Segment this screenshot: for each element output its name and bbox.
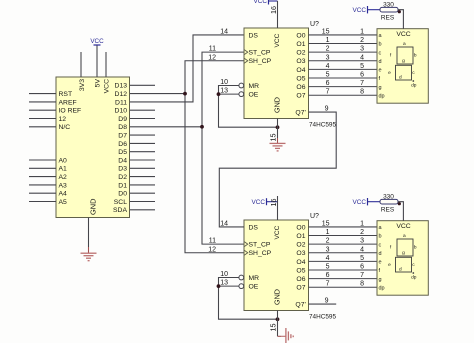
pin label Q7 U7-2 — [295, 302, 306, 309]
pin label O5 U7-1 — [296, 75, 305, 82]
svg-text:D13: D13 — [115, 83, 128, 90]
pin label A4 — [59, 191, 68, 198]
wire left-chip pin D9 stub — [130, 118, 155, 120]
pin label O4 U7-2 — [296, 259, 305, 266]
pin number 2 (O2 U7-2) — [326, 238, 330, 245]
svg-text:4: 4 — [360, 246, 364, 253]
svg-text:O7: O7 — [296, 93, 305, 100]
wire O0 U7-2 to display segment a — [309, 226, 378, 228]
junction resistor R1 output — [398, 10, 401, 13]
svg-text:VCC: VCC — [252, 199, 266, 206]
svg-text:12: 12 — [208, 246, 216, 253]
wire O2 U7-1 to display segment c — [309, 51, 378, 53]
svg-text:6: 6 — [360, 72, 364, 79]
svg-text:VCC: VCC — [396, 31, 410, 38]
svg-text:RST: RST — [59, 91, 73, 98]
pin label D13 — [115, 83, 128, 90]
wire O3 U7-1 to display segment d — [309, 60, 378, 62]
pin number 12 SH_CP U7-2 — [208, 246, 216, 253]
wire O6 U7-1 to display segment g — [309, 86, 378, 88]
svg-text:dp: dp — [411, 83, 417, 89]
svg-text:a: a — [403, 234, 406, 239]
wire left-chip pin RST stub — [29, 93, 56, 95]
svg-text:SH_CP: SH_CP — [249, 250, 272, 257]
pin label b display DS2 — [379, 234, 382, 240]
7-segment display DS2 body — [377, 221, 428, 296]
pin label GND rotated U7-1 — [272, 97, 281, 113]
pin number 14 (U7-1 DS) — [220, 28, 228, 35]
wire left-chip pin A0 stub — [29, 159, 56, 161]
svg-text:7: 7 — [326, 89, 330, 96]
svg-text:GND: GND — [272, 289, 281, 305]
junction OE U7-2 — [217, 284, 221, 288]
wire O7 U7-2 to display segment dp — [309, 286, 378, 288]
pin number 5 (O5 U7-2) — [326, 264, 330, 271]
pin label D3 — [118, 166, 127, 173]
svg-text:O4: O4 — [296, 67, 305, 74]
pin label f display DS1 — [379, 76, 381, 82]
wire GND pin U7-1 down — [277, 119, 279, 144]
microcontroller U_left body — [56, 77, 130, 218]
svg-text:d: d — [399, 267, 402, 273]
wire left-chip pin AREF stub — [29, 101, 56, 103]
svg-text:g: g — [402, 251, 405, 256]
svg-text:74HC595: 74HC595 — [309, 122, 336, 129]
svg-text:VCC: VCC — [274, 225, 281, 239]
svg-text:D0: D0 — [118, 191, 127, 198]
ground symbol below U7-1 — [270, 143, 286, 151]
pin number 16 rotated U7-1 — [269, 6, 278, 14]
wire left chip GND pin down — [88, 218, 90, 248]
pin number 1 (display 1 segment a) — [360, 28, 364, 35]
pin label SH_CP with clock arrow U7-1 — [244, 58, 272, 65]
svg-text:3: 3 — [360, 46, 364, 53]
svg-text:VCC: VCC — [274, 33, 281, 47]
wire net D12 to SH_CP verticals — [130, 93, 185, 95]
pin label A0 — [59, 157, 68, 164]
ground symbol below left chip — [81, 247, 97, 261]
pin label O7 U7-1 — [296, 93, 305, 100]
svg-text:VCC: VCC — [353, 7, 367, 14]
pin label a display DS1 — [379, 33, 383, 39]
pin label D12 — [115, 91, 128, 98]
pin label VCC rotated U7-1 — [274, 33, 281, 47]
pin label O2 U7-1 — [296, 50, 305, 57]
pin number 7 (display 1 segment g) — [360, 80, 364, 87]
wire Q7 U7-1 cascade to DS U7-2 pin 14 — [219, 112, 336, 227]
svg-text:ST_CP: ST_CP — [249, 50, 271, 57]
pin number 2 (display 1 segment b) — [360, 37, 364, 44]
wire left-chip pin D4 stub — [130, 159, 155, 161]
pin label 12 — [59, 116, 67, 123]
wire left-chip pin D2 stub — [130, 176, 155, 178]
svg-text:14: 14 — [220, 28, 228, 35]
svg-text:5: 5 — [360, 63, 364, 70]
pin number 11 ST_CP U7-2 — [209, 238, 216, 245]
svg-text:b: b — [379, 42, 382, 48]
svg-text:8: 8 — [360, 89, 364, 96]
wire left-chip pin 12 stub — [29, 118, 56, 120]
wire net D8 to ST_CP bus — [130, 126, 202, 128]
wire left-chip pin D1 stub — [130, 184, 155, 186]
svg-text:VCC: VCC — [104, 79, 111, 93]
pin label VCC (rotated) — [104, 79, 111, 93]
pin label O5 U7-2 — [296, 267, 305, 274]
svg-text:IO REF: IO REF — [59, 108, 82, 115]
svg-text:O3: O3 — [296, 250, 305, 257]
svg-text:MR: MR — [249, 275, 260, 282]
wire O4 U7-2 to display segment e — [309, 260, 378, 262]
pin label SCL — [114, 199, 127, 206]
svg-text:A4: A4 — [59, 191, 68, 198]
wire 3V3 pin stub (top) — [80, 52, 82, 77]
pin label D2 — [118, 174, 127, 181]
power symbol VCC for U7-2 — [252, 198, 278, 206]
pin label OE with bubble U7-2 — [239, 284, 259, 291]
wire O0 U7-1 to display segment a — [309, 34, 378, 36]
pin number 15 rotated at U7-1 GND — [269, 134, 278, 142]
pin number 10 MR U7-1 — [220, 79, 228, 86]
wire O4 U7-1 to display segment e — [309, 68, 378, 70]
wire O1 U7-1 to display segment b — [309, 43, 378, 45]
svg-text:5: 5 — [326, 72, 330, 79]
svg-text:A3: A3 — [59, 182, 68, 189]
pin label d display DS2 — [379, 251, 382, 257]
svg-text:3: 3 — [326, 54, 330, 61]
7-segment digit glyph display DS2 — [388, 234, 417, 280]
pin label ST_CP with clock arrow U7-2 — [244, 242, 271, 249]
svg-text:2: 2 — [360, 229, 364, 236]
pin label g display DS1 — [379, 85, 382, 91]
ground symbol right-rotated below U7-2 — [281, 328, 293, 343]
wire VCC to U7-2 top pin 16 — [277, 196, 279, 220]
svg-text:DS: DS — [249, 32, 259, 39]
pin label MR with bubble U7-2 — [239, 275, 259, 282]
svg-text:Q7’: Q7’ — [295, 302, 306, 309]
pin label f display DS2 — [379, 268, 381, 274]
svg-text:A1: A1 — [59, 166, 68, 173]
pin number 4 (O4 U7-2) — [326, 255, 330, 262]
pin label D8 — [118, 124, 127, 131]
svg-text:D12: D12 — [115, 91, 128, 98]
pin label RST — [59, 91, 73, 98]
wire resistor R2 to display VCC — [398, 202, 403, 221]
svg-text:dp: dp — [379, 285, 385, 291]
svg-text:D9: D9 — [118, 116, 127, 123]
svg-text:15: 15 — [322, 220, 330, 227]
wire O5 U7-2 to display segment f — [309, 269, 378, 271]
svg-text:g: g — [379, 277, 382, 283]
svg-text:e: e — [388, 263, 391, 268]
7-segment display DS1 body — [377, 29, 428, 104]
pin label SH_CP with clock arrow U7-2 — [244, 250, 272, 257]
pin number 11 ST_CP U7-1 — [209, 46, 216, 53]
svg-text:10: 10 — [220, 79, 228, 86]
svg-text:d: d — [379, 59, 382, 65]
label U? designator U7-2 — [310, 213, 319, 220]
svg-text:6: 6 — [360, 264, 364, 271]
pin label D11 — [115, 99, 127, 106]
svg-text:7: 7 — [360, 80, 364, 87]
pin number 6 (display 1 segment f) — [360, 72, 364, 79]
svg-text:330: 330 — [383, 193, 394, 200]
svg-text:O1: O1 — [296, 233, 305, 240]
svg-text:VCC: VCC — [396, 223, 410, 230]
pin label O6 U7-1 — [296, 84, 305, 91]
label U? designator U7-1 — [310, 21, 319, 28]
pin number 6 (display 2 segment f) — [360, 264, 364, 271]
pin label a display DS2 — [379, 225, 383, 231]
svg-text:O6: O6 — [296, 84, 305, 91]
wire 5V pin to VCC symbol — [96, 45, 98, 77]
pin number 4 (display 1 segment d) — [360, 54, 364, 61]
svg-text:13: 13 — [220, 88, 228, 95]
svg-text:O1: O1 — [296, 41, 305, 48]
pin number 7 (display 2 segment g) — [360, 272, 364, 279]
junction GND wire U7-1 — [276, 125, 280, 129]
svg-text:SCL: SCL — [114, 199, 127, 206]
pin number 4 (display 2 segment d) — [360, 246, 364, 253]
svg-text:dp: dp — [379, 93, 385, 99]
value label 330 (R2) — [383, 193, 394, 200]
svg-text:VCC: VCC — [254, 0, 268, 5]
svg-text:Q7’: Q7’ — [295, 110, 306, 117]
pin number 9 (Q7 U7-1) — [325, 106, 329, 113]
wire left-chip pin D7 stub — [130, 134, 155, 136]
svg-text:3: 3 — [326, 246, 330, 253]
pin number 15 rotated at U7-2 GND — [269, 324, 278, 332]
svg-text:12: 12 — [59, 116, 67, 123]
wire left-chip pin D5 stub — [130, 151, 155, 153]
svg-text:1: 1 — [326, 229, 330, 236]
svg-text:13: 13 — [220, 280, 228, 287]
svg-text:D3: D3 — [118, 166, 127, 173]
pin label c display DS2 — [379, 242, 382, 248]
pin label GND left chip (rotated) — [89, 199, 98, 215]
wire left-chip pin A5 stub — [29, 201, 56, 203]
wire O2 U7-2 to display segment c — [309, 243, 378, 245]
svg-text:1: 1 — [360, 220, 364, 227]
pin label 5V (rotated) — [95, 79, 102, 88]
svg-text:D6: D6 — [118, 141, 127, 148]
pin number 5 (display 1 segment e) — [360, 63, 364, 70]
pin number 6 (O6 U7-2) — [326, 272, 330, 279]
pin number 7 (O7 U7-2) — [326, 281, 330, 288]
power symbol VCC for resistor R2 — [353, 198, 381, 206]
wire left-chip pin IO REF stub — [29, 109, 56, 111]
wire VCC pin stub (top) — [105, 52, 107, 77]
svg-text:U?: U? — [310, 213, 319, 220]
pin label O1 U7-1 — [296, 41, 305, 48]
pin number 5 (O5 U7-1) — [326, 72, 330, 79]
svg-text:O5: O5 — [296, 75, 305, 82]
pin label O6 U7-2 — [296, 276, 305, 283]
pin label DS U7-1 — [249, 32, 259, 39]
value label RES (R2) — [381, 206, 395, 213]
svg-text:15: 15 — [269, 134, 278, 142]
junction OE U7-1 — [217, 92, 221, 96]
pin number 3 (display 1 segment c) — [360, 46, 364, 53]
pin label D4 — [118, 157, 127, 164]
wire O3 U7-2 to display segment d — [309, 252, 378, 254]
svg-text:N/C: N/C — [59, 124, 71, 131]
wire ST_CP bus vertical (both U7 ST_CP) — [202, 52, 244, 244]
pin number 3 (O3 U7-2) — [326, 246, 330, 253]
pin label A5 — [59, 199, 68, 206]
pin label O3 U7-1 — [296, 58, 305, 65]
op-amp U7-2 74HC595 body — [244, 220, 309, 311]
svg-text:e: e — [379, 260, 382, 266]
svg-text:6: 6 — [326, 80, 330, 87]
svg-text:A5: A5 — [59, 199, 68, 206]
wire left-chip pin SCL stub — [130, 201, 155, 203]
pin label D5 — [118, 149, 127, 156]
svg-text:6: 6 — [326, 272, 330, 279]
pin label VCC rotated U7-2 — [274, 225, 281, 239]
wire left-chip pin A4 stub — [29, 192, 56, 194]
label 74HC595 U7-1 — [309, 122, 336, 129]
svg-text:O5: O5 — [296, 267, 305, 274]
pin number 9 (Q7 U7-2) — [325, 298, 329, 305]
pin label D10 — [115, 108, 128, 115]
wire VCC to U7-1 top pin 16 — [277, 1, 279, 28]
junction resistor R2 output — [398, 202, 401, 205]
pin label A1 — [59, 166, 68, 173]
svg-text:VCC: VCC — [353, 199, 367, 206]
svg-text:12: 12 — [208, 54, 216, 61]
pin label O3 U7-2 — [296, 250, 305, 257]
svg-text:OE: OE — [249, 284, 259, 291]
pin label SDA — [113, 207, 127, 214]
svg-text:c: c — [379, 50, 382, 56]
svg-text:MR: MR — [249, 83, 260, 90]
svg-text:U?: U? — [310, 21, 319, 28]
svg-text:9: 9 — [325, 298, 329, 305]
svg-text:4: 4 — [326, 63, 330, 70]
pin label O4 U7-1 — [296, 67, 305, 74]
pin number 10 MR U7-2 — [220, 271, 228, 278]
resistor R1 330 body — [380, 7, 398, 12]
resistor R2 330 body — [380, 199, 398, 204]
svg-text:14: 14 — [220, 220, 228, 227]
svg-text:16: 16 — [269, 199, 278, 207]
svg-text:RES: RES — [381, 14, 395, 21]
pin label OE with bubble U7-1 — [239, 92, 259, 99]
wire O1 U7-2 to display segment b — [309, 235, 378, 237]
pin number 15 (O0 U7-2) — [322, 220, 330, 227]
svg-text:O0: O0 — [296, 224, 305, 231]
pin label ST_CP with clock arrow U7-1 — [244, 50, 271, 57]
pin label DS U7-2 — [249, 224, 259, 231]
svg-text:5V: 5V — [95, 79, 102, 88]
svg-text:d: d — [399, 75, 402, 81]
svg-text:O0: O0 — [296, 32, 305, 39]
wire net D11 to DS of U7-1, pin 14 — [130, 35, 244, 102]
svg-text:15: 15 — [269, 324, 278, 332]
pin label D7 — [118, 133, 127, 140]
svg-text:OE: OE — [249, 92, 259, 99]
pin label b display DS1 — [379, 42, 382, 48]
svg-text:1: 1 — [360, 28, 364, 35]
svg-text:GND: GND — [272, 97, 281, 113]
value label RES (R1) — [381, 14, 395, 21]
svg-text:D7: D7 — [118, 133, 127, 140]
pin label dp display DS2 — [379, 285, 385, 291]
wire Q7 U7-2 stub — [309, 303, 337, 305]
pin label O1 U7-2 — [296, 233, 305, 240]
pin label Q7 U7-1 — [295, 110, 306, 117]
svg-text:O3: O3 — [296, 58, 305, 65]
junction D12/SH_CP bus — [183, 92, 187, 96]
svg-text:1: 1 — [326, 37, 330, 44]
svg-text:3V3: 3V3 — [79, 79, 86, 91]
op-amp U7-1 74HC595 body — [244, 28, 309, 119]
wire GND pin U7-2 down — [278, 311, 282, 337]
svg-text:7: 7 — [360, 272, 364, 279]
svg-text:O2: O2 — [296, 50, 305, 57]
svg-text:4: 4 — [360, 54, 364, 61]
svg-text:74HC595: 74HC595 — [309, 314, 336, 321]
wire left-chip pin D13 stub — [130, 84, 155, 86]
wire MR U7-2 to ground bus — [219, 278, 278, 320]
pin label dp display DS1 — [379, 93, 385, 99]
power symbol VCC for U7-1 — [254, 0, 278, 5]
pin label O0 U7-1 — [296, 32, 305, 39]
value label 330 (R1) — [383, 1, 394, 8]
svg-text:5: 5 — [326, 264, 330, 271]
pin label MR with bubble U7-1 — [239, 83, 259, 90]
pin label g display DS2 — [379, 277, 382, 283]
svg-text:d: d — [379, 251, 382, 257]
pin label D6 — [118, 141, 127, 148]
pin label VCC display DS1 — [396, 31, 410, 38]
wire left-chip pin A2 stub — [29, 176, 56, 178]
pin number 3 (display 2 segment c) — [360, 238, 364, 245]
pin label 3V3 (rotated) — [79, 79, 86, 91]
pin number 3 (O3 U7-1) — [326, 54, 330, 61]
label 74HC595 U7-2 — [309, 314, 336, 321]
pin label c display DS1 — [379, 50, 382, 56]
pin number 12 SH_CP U7-1 — [208, 54, 216, 61]
wire left-chip pin SDA stub — [130, 209, 155, 211]
svg-text:8: 8 — [360, 281, 364, 288]
junction D8/ST_CP bus — [200, 125, 204, 129]
svg-text:D2: D2 — [118, 174, 127, 181]
svg-text:dp: dp — [411, 275, 417, 281]
pin label VCC display DS2 — [396, 223, 410, 230]
svg-text:2: 2 — [326, 46, 330, 53]
svg-text:11: 11 — [209, 46, 216, 53]
svg-text:D5: D5 — [118, 149, 127, 156]
svg-text:4: 4 — [326, 255, 330, 262]
pin label e display DS1 — [379, 68, 382, 74]
svg-text:O2: O2 — [296, 242, 305, 249]
svg-text:b: b — [414, 53, 417, 59]
7-segment digit glyph display DS1 — [388, 42, 417, 88]
svg-text:9: 9 — [325, 106, 329, 113]
svg-text:5: 5 — [360, 255, 364, 262]
pin number 2 (O2 U7-1) — [326, 46, 330, 53]
svg-text:A0: A0 — [59, 157, 68, 164]
svg-text:3: 3 — [360, 238, 364, 245]
svg-text:D1: D1 — [118, 182, 127, 189]
wire left-chip pin D0 stub — [130, 192, 155, 194]
pin label GND rotated U7-2 — [272, 289, 281, 305]
wire resistor R1 to display VCC — [398, 10, 403, 29]
svg-text:e: e — [388, 71, 391, 76]
pin number 4 (O4 U7-1) — [326, 63, 330, 70]
svg-text:2: 2 — [326, 238, 330, 245]
